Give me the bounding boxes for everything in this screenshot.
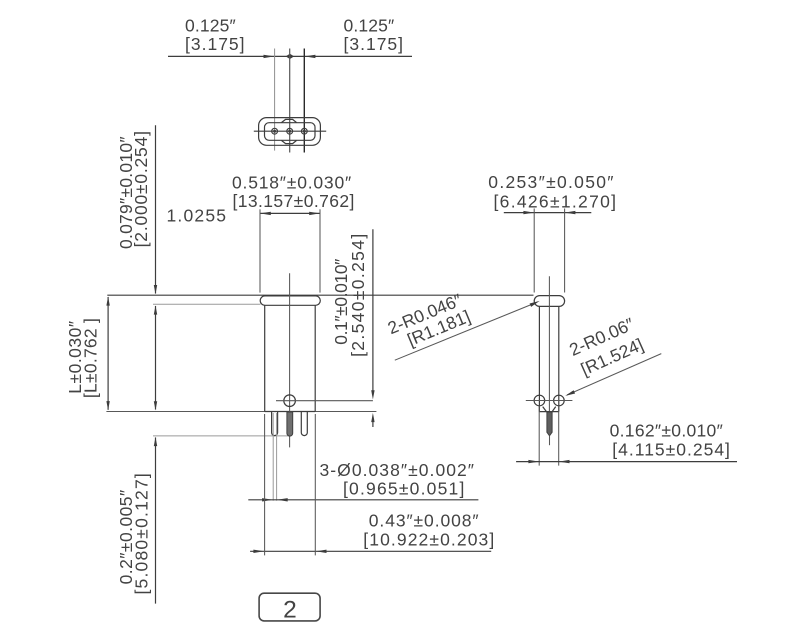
svg-text:[6.426±1.270]: [6.426±1.270] xyxy=(494,192,618,212)
svg-text:0.125″: 0.125″ xyxy=(344,15,395,35)
svg-text:[0.965±0.051]: [0.965±0.051] xyxy=(343,479,466,499)
svg-text:[10.922±0.203]: [10.922±0.203] xyxy=(363,530,495,550)
svg-text:0.162″±0.010″: 0.162″±0.010″ xyxy=(610,421,723,441)
svg-text:0.125″: 0.125″ xyxy=(185,15,236,35)
svg-text:2: 2 xyxy=(283,597,297,624)
svg-text:[2.000±0.254]: [2.000±0.254] xyxy=(131,130,151,247)
svg-text:3-Ø0.038″±0.002″: 3-Ø0.038″±0.002″ xyxy=(320,460,476,480)
svg-text:[4.115±0.254]: [4.115±0.254] xyxy=(612,440,731,460)
svg-text:1.0255: 1.0255 xyxy=(167,205,228,225)
svg-text:[L±0.762 ]: [L±0.762 ] xyxy=(80,318,100,398)
svg-text:0.518″±0.030″: 0.518″±0.030″ xyxy=(232,173,352,193)
svg-text:[5.080±0.127]: [5.080±0.127] xyxy=(131,472,151,595)
svg-text:[3.175]: [3.175] xyxy=(185,34,246,54)
svg-text:[13.157±0.762]: [13.157±0.762] xyxy=(233,191,355,211)
svg-text:0.43″±0.008″: 0.43″±0.008″ xyxy=(369,511,480,531)
svg-text:[2.540±0.254]: [2.540±0.254] xyxy=(348,232,368,356)
svg-text:[3.175]: [3.175] xyxy=(344,34,405,54)
svg-text:0.253″±0.050″: 0.253″±0.050″ xyxy=(488,172,614,192)
